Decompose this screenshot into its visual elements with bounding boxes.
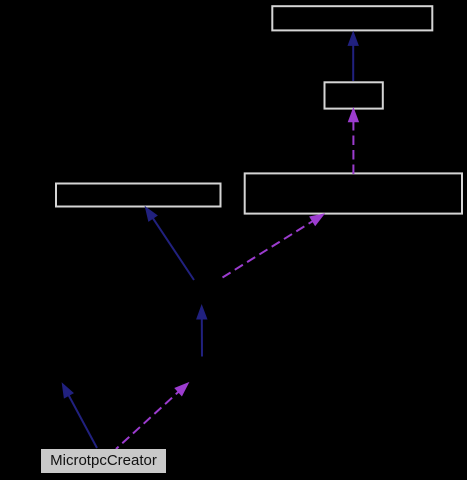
node box left: [56, 184, 221, 207]
arrow solid blue: lower hidden node up to upper hidden node: [197, 306, 207, 357]
node box right (two-line label): [245, 173, 462, 213]
arrow solid blue: small box to top box: [348, 32, 358, 81]
arrow dashed purple: hidden node to right box: [223, 214, 325, 278]
arrow solid blue: hidden node to left box: [145, 207, 194, 280]
node box top (empty label): [272, 6, 432, 30]
arrow dashed purple: MicrotpcCreator to lower hidden node: [116, 383, 188, 449]
arrow solid blue: MicrotpcCreator to hidden left node: [62, 384, 97, 449]
arrow dashed purple: right box to small box: [348, 108, 358, 174]
node box MicrotpcCreator: [41, 449, 166, 473]
svg-text:MicrotpcCreator: MicrotpcCreator: [50, 452, 157, 469]
node box small middle: [325, 82, 383, 108]
